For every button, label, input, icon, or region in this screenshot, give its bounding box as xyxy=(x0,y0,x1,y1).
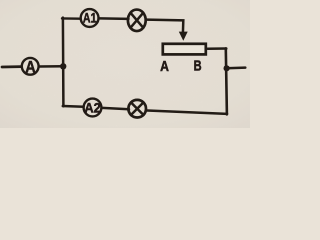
wire A2 to lamp L2 xyxy=(102,108,129,109)
wire A to junction xyxy=(40,65,65,68)
wire left lead xyxy=(2,65,21,68)
ammeter A xyxy=(22,58,39,77)
wiper arrow xyxy=(179,32,188,41)
wire bottom branch to A2 xyxy=(63,105,84,108)
wire top branch to A1 xyxy=(62,17,80,20)
wire left vertical bus xyxy=(62,18,65,107)
svg-text:A2: A2 xyxy=(84,100,101,116)
lamp L1 xyxy=(128,10,146,32)
node J2 junction dot xyxy=(224,65,230,71)
wire L1 to rheostat wiper corner xyxy=(147,20,184,34)
wire A1 to lamp L1 xyxy=(100,17,129,20)
lamp L2 xyxy=(128,100,146,118)
wire right vertical bus xyxy=(226,48,227,114)
ammeter A2 xyxy=(84,99,102,117)
wire rheostat B to right corner xyxy=(208,47,227,50)
svg-text:B: B xyxy=(194,57,202,74)
wire right stub xyxy=(227,66,246,69)
node J1 junction dot xyxy=(60,63,66,69)
wire L2 to bottom right corner xyxy=(147,111,227,114)
svg-text:A1: A1 xyxy=(83,10,97,26)
svg-text:A: A xyxy=(160,58,169,75)
rheostat R xyxy=(163,44,206,55)
ammeter A1 xyxy=(81,9,99,27)
svg-text:A: A xyxy=(25,58,36,76)
